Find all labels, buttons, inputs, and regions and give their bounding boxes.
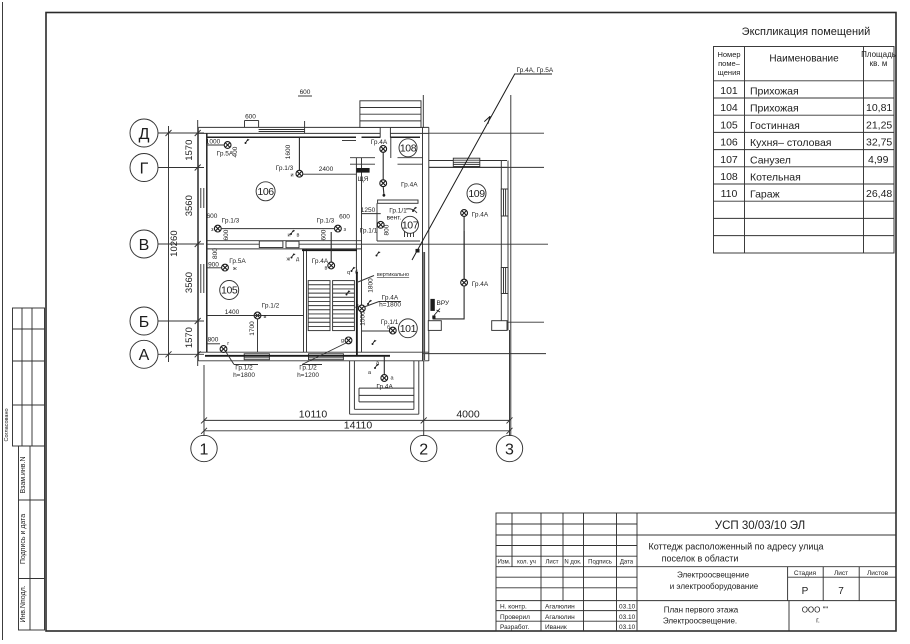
svg-text:Гр.4А: Гр.4А [401, 182, 418, 189]
svg-text:б: б [355, 270, 358, 276]
svg-text:105: 105 [720, 119, 738, 131]
svg-text:1250: 1250 [361, 207, 376, 214]
svg-text:Г: Г [140, 160, 149, 177]
svg-text:в: в [297, 233, 300, 239]
svg-text:ж: ж [287, 257, 291, 263]
svg-text:Гр.4А, Гр.5А: Гр.4А, Гр.5А [517, 67, 554, 74]
svg-text:Дата: Дата [620, 560, 634, 566]
svg-text:900: 900 [208, 262, 219, 269]
svg-text:Согласовано: Согласовано [4, 408, 10, 441]
svg-text:Котельная: Котельная [750, 172, 801, 184]
svg-text:Проверил: Проверил [500, 614, 530, 621]
svg-text:ВРУ: ВРУ [437, 300, 451, 307]
svg-text:10110: 10110 [299, 409, 328, 421]
svg-text:Гр.1/1: Гр.1/1 [389, 208, 407, 215]
svg-text:104: 104 [720, 102, 738, 114]
svg-text:1570: 1570 [184, 140, 195, 161]
svg-text:ЩЯ: ЩЯ [358, 176, 369, 183]
svg-text:108: 108 [720, 171, 738, 183]
svg-text:Агалюлин: Агалюлин [545, 604, 575, 611]
svg-text:26,48: 26,48 [866, 188, 892, 200]
svg-text:03.10: 03.10 [619, 624, 636, 631]
svg-text:110: 110 [721, 188, 738, 200]
svg-text:Подпись: Подпись [588, 560, 612, 566]
svg-text:1000: 1000 [206, 139, 221, 146]
svg-text:в: в [264, 314, 267, 320]
svg-text:Прихожая: Прихожая [750, 86, 799, 98]
svg-text:вертикально: вертикально [377, 272, 409, 278]
svg-text:Коттедж расположенный по ад: Коттедж расположенный по адресу улица [648, 542, 823, 552]
svg-text:и: и [288, 233, 291, 239]
svg-text:ж: ж [233, 266, 237, 272]
svg-text:101: 101 [400, 323, 417, 335]
svg-text:Гр.4А: Гр.4А [371, 139, 388, 146]
svg-text:03.10: 03.10 [619, 604, 636, 611]
svg-text:кв. м: кв. м [870, 59, 888, 68]
svg-text:Гостинная: Гостинная [750, 120, 800, 132]
svg-text:Гр.4А: Гр.4А [472, 281, 489, 288]
svg-text:Гр.4А: Гр.4А [382, 295, 399, 302]
svg-text:кол. уч: кол. уч [517, 560, 536, 566]
svg-text:14110: 14110 [344, 419, 373, 431]
svg-text:Взам.инв.N: Взам.инв.N [20, 456, 27, 493]
svg-text:Номер: Номер [717, 50, 740, 59]
svg-text:4000: 4000 [456, 409, 480, 421]
svg-text:Стадия: Стадия [794, 570, 817, 577]
svg-text:600: 600 [339, 214, 350, 221]
svg-text:800: 800 [208, 337, 219, 344]
svg-text:и электрооборудование: и электрооборудование [670, 582, 759, 591]
svg-text:Изм.: Изм. [498, 560, 511, 566]
svg-text:Инв.Nподл.: Инв.Nподл. [20, 585, 27, 622]
svg-text:106: 106 [720, 137, 738, 149]
svg-text:10260: 10260 [169, 230, 180, 256]
svg-text:Разработ.: Разработ. [500, 623, 529, 631]
svg-text:Лист: Лист [834, 570, 848, 577]
svg-text:Н. контр.: Н. контр. [500, 604, 527, 611]
svg-text:h=1800: h=1800 [233, 372, 255, 379]
svg-text:800: 800 [384, 224, 391, 235]
svg-text:Гараж: Гараж [750, 189, 780, 201]
svg-text:Лист: Лист [545, 560, 558, 566]
svg-text:Гр.1/3: Гр.1/3 [222, 218, 240, 225]
svg-text:32,75: 32,75 [866, 137, 892, 149]
svg-text:600: 600 [300, 89, 311, 96]
svg-text:800: 800 [212, 248, 219, 259]
svg-text:105: 105 [221, 285, 238, 297]
svg-text:1400: 1400 [225, 309, 240, 316]
svg-text:7: 7 [838, 586, 844, 597]
svg-text:1700: 1700 [249, 321, 256, 336]
svg-text:План первого этажа: План первого этажа [664, 606, 739, 615]
svg-text:Санузел: Санузел [750, 154, 791, 166]
svg-text:Гр.4А: Гр.4А [472, 212, 489, 219]
svg-text:2: 2 [419, 441, 428, 458]
svg-text:б: б [387, 325, 390, 331]
svg-text:q: q [347, 270, 350, 276]
svg-text:109: 109 [468, 188, 485, 200]
svg-text:Гр.4А: Гр.4А [376, 384, 393, 391]
svg-text:Прихожая: Прихожая [750, 103, 799, 115]
svg-text:Гр.1/1: Гр.1/1 [360, 228, 378, 235]
svg-text:щения: щения [718, 68, 741, 77]
svg-text:Листов: Листов [867, 570, 889, 577]
svg-text:3560: 3560 [184, 195, 195, 216]
svg-text:в: в [325, 266, 328, 272]
svg-text:Гр.4А: Гр.4А [312, 258, 329, 265]
svg-text:Электроосвещение: Электроосвещение [677, 571, 750, 580]
svg-text:107: 107 [720, 154, 738, 166]
svg-text:Наименование: Наименование [769, 54, 839, 65]
svg-text:Площадь: Площадь [861, 50, 896, 59]
svg-text:Экспликация помещений: Экспликация помещений [742, 26, 871, 38]
svg-text:107: 107 [402, 219, 419, 231]
svg-text:10,81: 10,81 [866, 102, 892, 114]
svg-text:g: g [341, 338, 344, 344]
svg-text:Агалюлин: Агалюлин [545, 614, 575, 621]
svg-text:101: 101 [720, 85, 738, 97]
svg-text:Кухня– столовая: Кухня– столовая [750, 137, 831, 149]
svg-text:и: и [291, 173, 294, 179]
svg-text:поме–: поме– [718, 59, 741, 68]
svg-text:600: 600 [245, 114, 256, 121]
svg-text:г: г [227, 341, 229, 347]
svg-text:1: 1 [200, 441, 209, 458]
svg-text:3: 3 [505, 441, 514, 458]
svg-text:03.10: 03.10 [619, 614, 636, 621]
svg-text:1570: 1570 [184, 327, 195, 348]
svg-text:УСП 30/03/10 ЭЛ: УСП 30/03/10 ЭЛ [715, 520, 805, 532]
svg-text:1600: 1600 [285, 144, 292, 159]
svg-text:2400: 2400 [319, 166, 334, 173]
svg-text:Гр.1/3: Гр.1/3 [317, 218, 335, 225]
svg-text:h=1800: h=1800 [379, 302, 401, 309]
svg-text:Гр.1/2: Гр.1/2 [262, 303, 280, 310]
svg-text:г.: г. [816, 618, 820, 625]
svg-text:поселок в области: поселок в области [662, 554, 739, 564]
svg-text:600: 600 [207, 213, 218, 220]
svg-text:Гр.1/2: Гр.1/2 [235, 365, 253, 372]
svg-text:106: 106 [257, 186, 274, 198]
svg-text:600: 600 [223, 229, 230, 240]
svg-text:1500: 1500 [360, 311, 367, 326]
svg-text:21,25: 21,25 [866, 119, 892, 131]
svg-text:N док.: N док. [564, 560, 581, 566]
svg-text:ООО "": ООО "" [802, 606, 829, 615]
svg-text:108: 108 [400, 142, 417, 154]
svg-text:Подпись и дата: Подпись и дата [20, 514, 27, 564]
svg-text:В: В [139, 237, 150, 254]
svg-text:600: 600 [321, 229, 328, 240]
svg-text:Б: Б [139, 314, 150, 331]
svg-text:1800: 1800 [368, 278, 375, 293]
svg-text:h=1200: h=1200 [297, 372, 319, 379]
svg-text:Иваник: Иваник [545, 624, 567, 631]
svg-text:вент.: вент. [387, 215, 402, 222]
svg-text:Р: Р [802, 586, 809, 597]
svg-text:Гр.1/2: Гр.1/2 [299, 365, 317, 372]
svg-text:Гр.1/3: Гр.1/3 [276, 165, 294, 172]
svg-text:Д: Д [139, 126, 150, 143]
svg-text:Гр.5А: Гр.5А [229, 258, 246, 265]
svg-text:400: 400 [232, 146, 239, 157]
svg-text:4,99: 4,99 [868, 154, 889, 166]
svg-text:Электроосвещение.: Электроосвещение. [663, 617, 737, 626]
svg-text:А: А [139, 347, 150, 364]
svg-text:3560: 3560 [184, 272, 195, 293]
